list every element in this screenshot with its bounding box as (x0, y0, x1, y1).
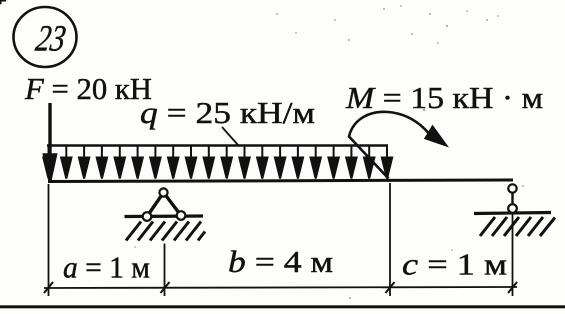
dimension line (44, 287, 517, 288)
load arrow 5 (115, 146, 125, 179)
load arrow 11 (222, 146, 232, 179)
dimension tick at 512.5 (508, 282, 517, 293)
extension line at x=512.5 (512, 213, 514, 296)
distributed load q top line (47, 144, 388, 147)
load arrow 17 (328, 146, 338, 179)
pin support A: hatching (126, 222, 205, 241)
load arrow 19 (364, 146, 374, 179)
load arrow 16 (311, 146, 321, 179)
pin support A: right foot circle (177, 211, 186, 220)
dimension tick at 48 (44, 282, 53, 293)
load arrow 14 (275, 146, 285, 179)
load arrow 7 (150, 146, 160, 179)
svg-text:q = 25 кН/м: q = 25 кН/м (140, 95, 315, 130)
roller support B: hatching (480, 217, 555, 236)
svg-text:M = 15 кН · м: M = 15 кН · м (345, 80, 543, 115)
load arrow 9 (186, 146, 196, 179)
pin support A: apex hinge circle (159, 188, 167, 196)
load arrow 3 (79, 146, 89, 179)
load arrow 4 (97, 146, 107, 179)
force F arrow (45, 103, 56, 180)
load arrow 8 (168, 146, 178, 179)
load arrow 6 (132, 146, 142, 179)
load arrow 10 (204, 146, 214, 179)
pin support A: legs (147, 193, 181, 217)
dimension tick at 165 (161, 282, 170, 293)
moment M curved arrow (349, 112, 429, 179)
corner mark top-left (0, 0, 6, 4)
task number circle 23 (14, 7, 77, 67)
distributed load q arrows (43, 146, 392, 179)
scan speckles (134, 5, 524, 299)
roller support B: lower circle (508, 204, 517, 213)
pin support A: left foot circle (143, 212, 152, 221)
bottom border rule (0, 305, 565, 308)
svg-text:a = 1 м: a = 1 м (63, 250, 150, 285)
extension line at x=390 (389, 183, 391, 296)
beam (48, 180, 513, 182)
extension line at x=165 (164, 244, 166, 297)
dimension tick at 390 (386, 282, 395, 293)
load arrow 2 (61, 146, 71, 179)
svg-text:F = 20 кН: F = 20 кН (24, 71, 152, 106)
roller support B: upper hinge circle (508, 184, 516, 192)
load arrow 12 (239, 146, 249, 179)
svg-text:c = 1 м: c = 1 м (402, 247, 507, 282)
distributed load q right edge (386, 146, 388, 166)
pin support A: ground line (125, 214, 204, 218)
extension line at x=48 (48, 184, 50, 296)
leader line from q label (222, 127, 238, 145)
load arrow 18 (346, 146, 356, 179)
load arrow 13 (257, 146, 267, 179)
roller support B: link (511, 192, 513, 205)
load arrow 20 (382, 146, 392, 179)
roller support B: ground line (474, 213, 551, 214)
load arrow 1 (43, 146, 53, 179)
moment M arrowhead (425, 126, 447, 146)
load arrow 15 (293, 146, 303, 179)
svg-text:b = 4 м: b = 4 м (228, 244, 333, 279)
